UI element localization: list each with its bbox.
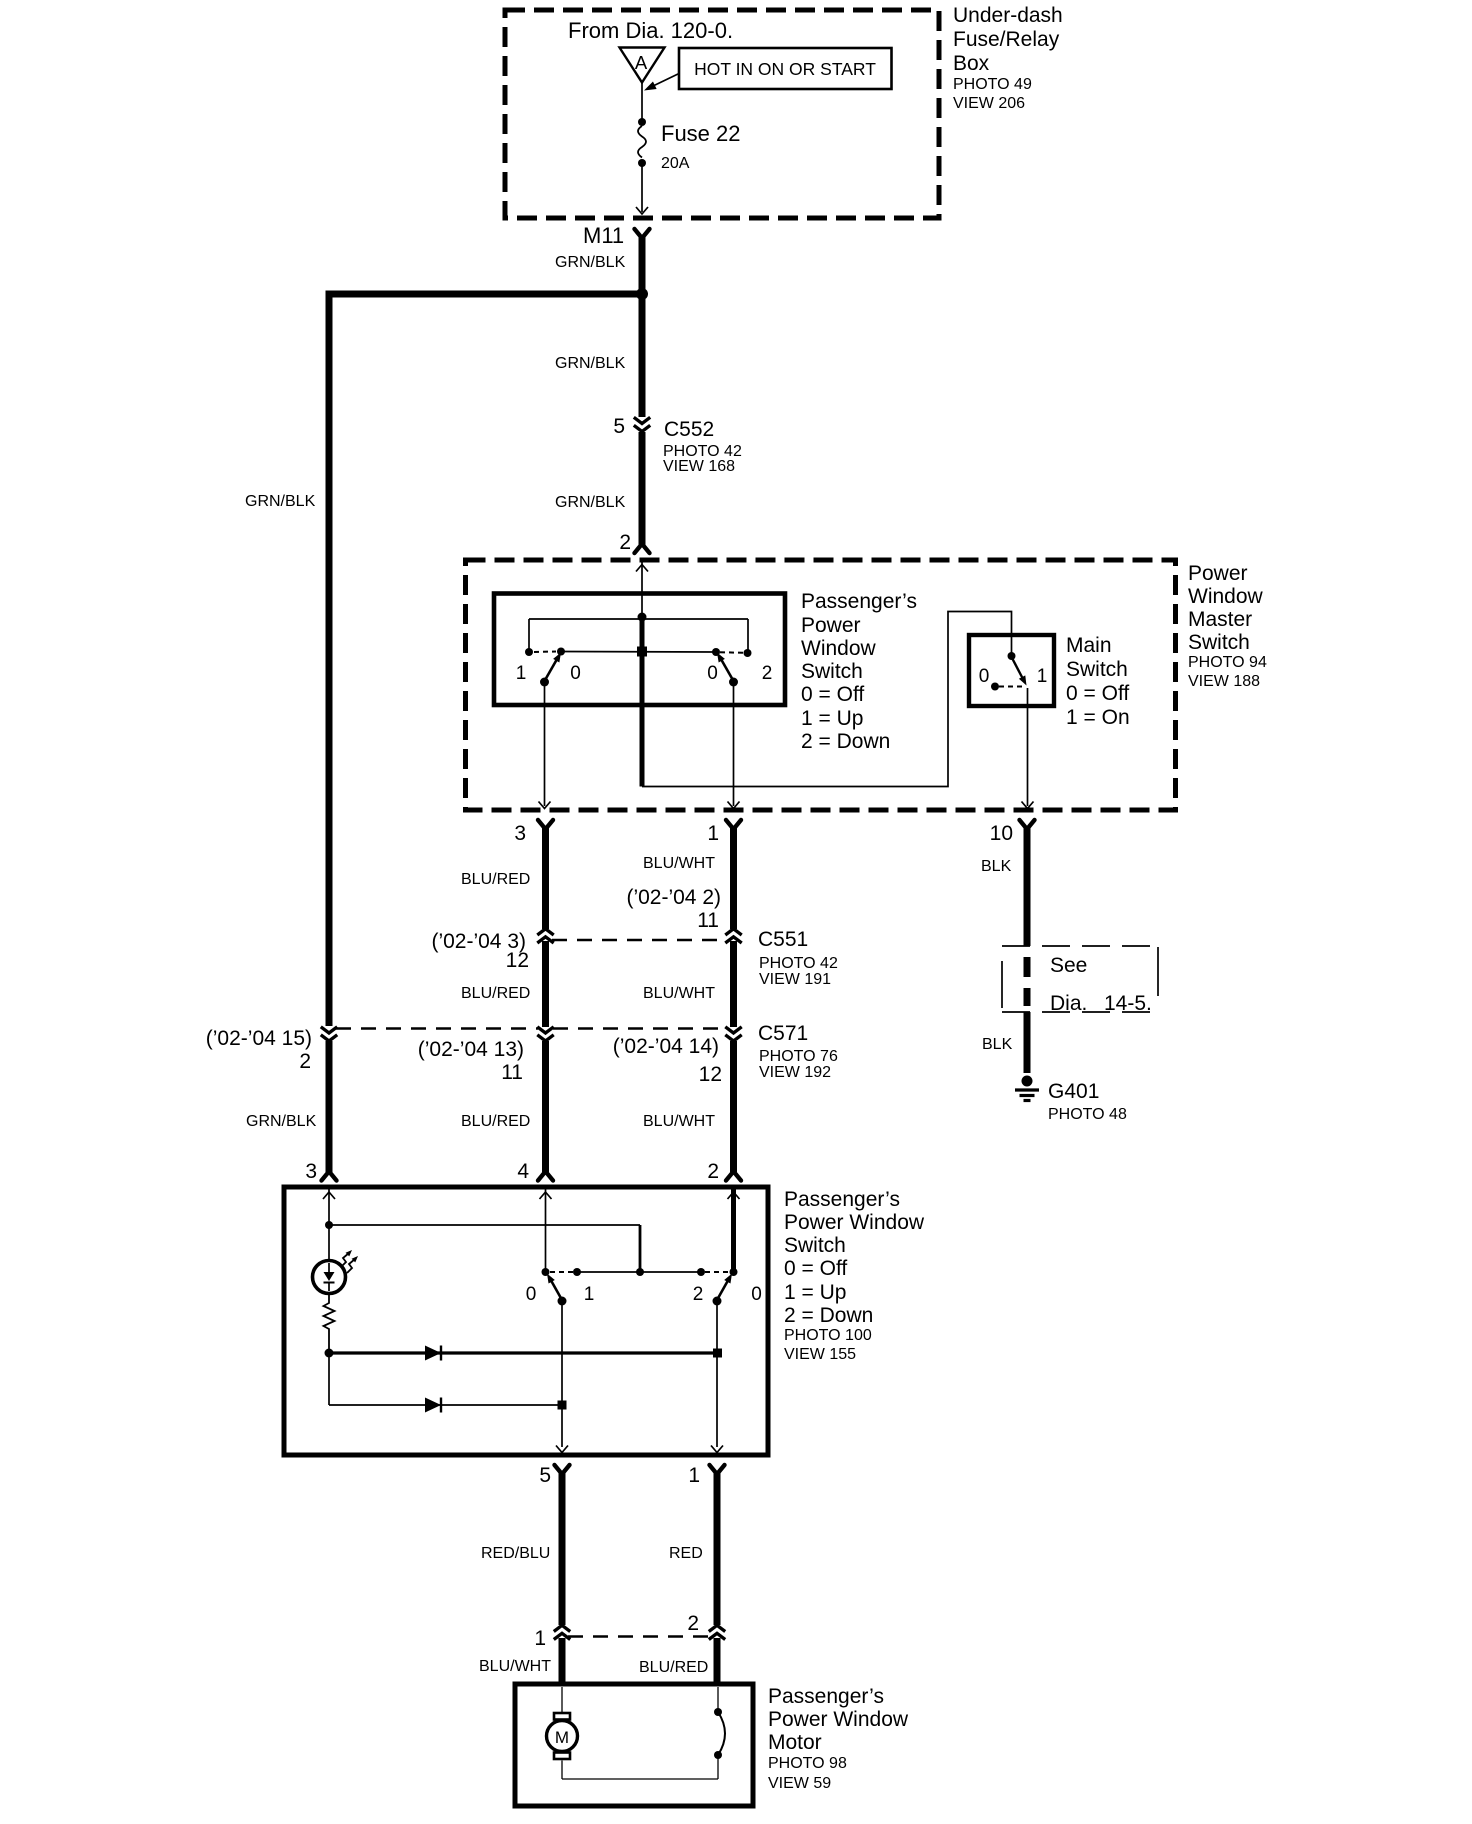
svg-text:Master: Master: [1188, 608, 1252, 631]
svg-text:1: 1: [584, 1284, 595, 1305]
svg-text:2 = Down: 2 = Down: [784, 1304, 873, 1327]
svg-text:12: 12: [699, 1063, 722, 1086]
svg-text:BLU/WHT: BLU/WHT: [479, 1658, 551, 1675]
svg-text:Switch: Switch: [784, 1234, 846, 1257]
svg-text:4: 4: [517, 1160, 529, 1183]
svg-text:0 = Off: 0 = Off: [801, 683, 864, 706]
svg-text:M11: M11: [583, 223, 624, 248]
svg-text:(’02-’04 2): (’02-’04 2): [626, 886, 721, 909]
svg-text:Dia.: Dia.: [1050, 992, 1087, 1015]
svg-text:2: 2: [762, 663, 773, 684]
svg-text:BLU/RED: BLU/RED: [461, 871, 530, 888]
svg-text:Passenger’s: Passenger’s: [784, 1188, 900, 1211]
svg-text:5: 5: [539, 1464, 551, 1487]
svg-text:0: 0: [526, 1284, 537, 1305]
svg-text:(’02-’04 14): (’02-’04 14): [613, 1035, 719, 1058]
svg-text:VIEW 206: VIEW 206: [953, 95, 1025, 112]
svg-text:GRN/BLK: GRN/BLK: [555, 355, 626, 372]
svg-text:11: 11: [697, 909, 719, 932]
svg-text:VIEW 59: VIEW 59: [768, 1775, 831, 1792]
svg-text:VIEW 155: VIEW 155: [784, 1346, 856, 1363]
svg-text:PHOTO 49: PHOTO 49: [953, 76, 1032, 93]
svg-text:1: 1: [1037, 666, 1048, 687]
svg-text:GRN/BLK: GRN/BLK: [246, 1113, 317, 1130]
svg-text:Passenger’s: Passenger’s: [801, 590, 917, 613]
svg-text:See: See: [1050, 954, 1087, 977]
svg-text:C571: C571: [758, 1022, 808, 1045]
svg-text:PHOTO 76: PHOTO 76: [759, 1048, 838, 1065]
svg-text:2: 2: [693, 1284, 704, 1305]
svg-text:RED: RED: [669, 1545, 703, 1562]
svg-text:1 = On: 1 = On: [1066, 706, 1130, 729]
svg-text:Switch: Switch: [1188, 631, 1250, 654]
svg-text:3: 3: [305, 1160, 317, 1183]
svg-text:Main: Main: [1066, 634, 1112, 657]
svg-text:3: 3: [514, 822, 526, 845]
svg-text:VIEW 188: VIEW 188: [1188, 673, 1260, 690]
svg-text:PHOTO 42: PHOTO 42: [759, 955, 838, 972]
svg-text:VIEW 191: VIEW 191: [759, 971, 831, 988]
svg-text:Box: Box: [953, 52, 990, 75]
svg-text:Under-dash: Under-dash: [953, 4, 1063, 27]
svg-text:HOT IN ON OR START: HOT IN ON OR START: [694, 59, 876, 79]
svg-text:PHOTO 48: PHOTO 48: [1048, 1106, 1127, 1123]
svg-text:1: 1: [688, 1464, 700, 1487]
svg-text:PHOTO 98: PHOTO 98: [768, 1755, 847, 1772]
svg-text:14-5.: 14-5.: [1104, 992, 1152, 1015]
svg-text:10: 10: [990, 822, 1013, 845]
svg-text:Fuse/Relay: Fuse/Relay: [953, 28, 1060, 51]
svg-text:0 = Off: 0 = Off: [1066, 682, 1129, 705]
svg-text:G401: G401: [1048, 1080, 1099, 1103]
svg-text:From Dia. 120-0.: From Dia. 120-0.: [568, 18, 733, 43]
svg-text:2: 2: [707, 1160, 719, 1183]
svg-text:PHOTO 100: PHOTO 100: [784, 1327, 872, 1344]
svg-text:GRN/BLK: GRN/BLK: [555, 254, 626, 271]
svg-text:2: 2: [619, 531, 631, 554]
svg-text:BLU/RED: BLU/RED: [461, 985, 530, 1002]
svg-text:BLK: BLK: [981, 858, 1012, 875]
svg-text:Power Window: Power Window: [784, 1211, 925, 1234]
svg-text:12: 12: [506, 949, 529, 972]
svg-text:BLU/RED: BLU/RED: [461, 1113, 530, 1130]
svg-text:1: 1: [707, 822, 719, 845]
svg-text:20A: 20A: [661, 155, 690, 172]
svg-text:Fuse 22: Fuse 22: [661, 121, 741, 146]
svg-text:(’02-’04 15): (’02-’04 15): [206, 1027, 312, 1050]
svg-text:PHOTO 94: PHOTO 94: [1188, 654, 1267, 671]
svg-text:C551: C551: [758, 928, 808, 951]
svg-text:Switch: Switch: [1066, 658, 1128, 681]
svg-text:Motor: Motor: [768, 1731, 822, 1754]
svg-text:0: 0: [707, 663, 718, 684]
svg-text:GRN/BLK: GRN/BLK: [245, 493, 316, 510]
svg-text:0: 0: [570, 663, 581, 684]
svg-text:11: 11: [501, 1061, 523, 1084]
svg-text:0 = Off: 0 = Off: [784, 1257, 847, 1280]
svg-text:5: 5: [613, 415, 625, 438]
svg-text:M: M: [555, 1728, 569, 1747]
svg-text:BLU/WHT: BLU/WHT: [643, 1113, 715, 1130]
svg-text:Power: Power: [1188, 562, 1248, 585]
svg-text:BLU/RED: BLU/RED: [639, 1659, 708, 1676]
svg-text:1: 1: [534, 1627, 546, 1650]
svg-text:2: 2: [687, 1612, 699, 1635]
svg-text:2: 2: [299, 1050, 311, 1073]
svg-text:1 = Up: 1 = Up: [801, 707, 863, 730]
svg-text:Power Window: Power Window: [768, 1708, 909, 1731]
svg-text:0: 0: [751, 1284, 762, 1305]
svg-text:Switch: Switch: [801, 660, 863, 683]
svg-text:0: 0: [979, 666, 990, 687]
svg-text:BLU/WHT: BLU/WHT: [643, 855, 715, 872]
svg-text:Power: Power: [801, 614, 861, 637]
svg-text:Passenger’s: Passenger’s: [768, 1685, 884, 1708]
svg-text:C552: C552: [664, 418, 714, 441]
svg-text:1: 1: [516, 663, 527, 684]
svg-text:(’02-’04 13): (’02-’04 13): [418, 1038, 524, 1061]
svg-text:Window: Window: [1188, 585, 1264, 608]
svg-text:A: A: [635, 52, 648, 73]
svg-text:BLK: BLK: [982, 1036, 1013, 1053]
svg-text:GRN/BLK: GRN/BLK: [555, 494, 626, 511]
svg-text:1 = Up: 1 = Up: [784, 1281, 846, 1304]
svg-text:VIEW 168: VIEW 168: [663, 458, 735, 475]
svg-text:RED/BLU: RED/BLU: [481, 1545, 550, 1562]
svg-text:Window: Window: [801, 637, 877, 660]
svg-text:2 = Down: 2 = Down: [801, 730, 890, 753]
svg-text:VIEW 192: VIEW 192: [759, 1064, 831, 1081]
svg-text:BLU/WHT: BLU/WHT: [643, 985, 715, 1002]
